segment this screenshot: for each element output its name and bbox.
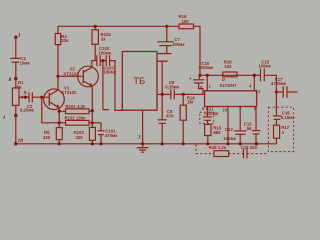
resistor R1 10к volume potentiometer [12, 79, 24, 144]
resistor R19 value 100 (in series with rail) [179, 14, 194, 29]
svg-text:1: 1 [18, 33, 21, 39]
node bus junction R15 [206, 142, 209, 145]
wire V1 emitter down [58, 108, 60, 128]
capacitor C102 100мк [97, 46, 112, 66]
svg-text:0,20мк: 0,20мк [20, 108, 35, 113]
node junction rail/R104 [94, 25, 97, 28]
wire C9 to amp input [174, 83, 203, 94]
capacitor C11 0,15мк [203, 107, 219, 121]
node 1 input terminal [14, 33, 21, 39]
capacitor C101 470мк [97, 123, 118, 144]
wire Zobel branch down [275, 92, 277, 116]
node bus junction ТБ pin3 [141, 142, 144, 145]
wire R1 wiper to node 9 [19, 96, 29, 98]
resistor R17 1 [274, 119, 290, 143]
wire C2 to V1 base [32, 96, 49, 98]
capacitor C2 0,33мк coupling [20, 92, 35, 112]
capacitor C10 1000мк [189, 61, 214, 83]
svg-text:470мк: 470мк [105, 133, 118, 138]
wire C17 to speaker terminal [287, 91, 298, 93]
wire ТБ output line [157, 93, 171, 95]
wire C1 to node 8 [15, 62, 17, 78]
svg-text:9: 9 [24, 91, 27, 97]
svg-text:3: 3 [137, 134, 141, 140]
transistor V1 КТ3102 [44, 86, 77, 110]
node bus junction C8 [161, 142, 164, 145]
ground symbol [137, 144, 149, 152]
wire IC pin 5 down [255, 107, 257, 131]
wire V1 collector riser [57, 45, 59, 90]
resistor R16 100 [223, 60, 237, 77]
resistor R101 4,3к feedback [59, 104, 92, 114]
svg-text:КТ3102: КТ3102 [62, 90, 78, 95]
capacitor C103 100мк [104, 55, 117, 74]
node junction emitter/R102 [91, 121, 94, 124]
node junction emitter/R101 [91, 109, 94, 112]
wire input down to C1 [15, 37, 17, 58]
svg-text:0,15мк: 0,15мк [204, 111, 219, 116]
wire between caps [100, 60, 106, 62]
wire C103 to corner down into ТБ [110, 61, 123, 111]
svg-text:R101 4,3к: R101 4,3к [66, 104, 86, 109]
svg-text:D: D [222, 77, 225, 82]
wire top supply rail [58, 25, 179, 27]
svg-text:680: 680 [213, 130, 221, 135]
svg-text:ТБ: ТБ [133, 76, 145, 87]
svg-text:К174УН7: К174УН7 [220, 83, 237, 88]
wire from caps junction down [103, 61, 109, 110]
connector bar upper [158, 53, 172, 55]
svg-text:1: 1 [209, 84, 211, 89]
svg-text:56: 56 [247, 126, 252, 131]
node junction pin4 riser [253, 74, 256, 77]
wire pin 4 riser [253, 75, 255, 91]
svg-text:420: 420 [76, 135, 84, 140]
node bus junction R14 [182, 142, 185, 145]
node bus junction C13 end [255, 142, 258, 145]
op-amp U1 К174УН7 IC box [205, 77, 257, 107]
node junction rail/C7 [165, 25, 168, 28]
capacitor C16 0,15мк [273, 110, 295, 120]
svg-text:C18 220: C18 220 [241, 145, 258, 150]
capacitor C18 220 [241, 145, 258, 158]
wire IC pin 6 down [207, 107, 209, 117]
node junction emitter/R101 left [58, 110, 61, 113]
svg-text:4700мк: 4700мк [271, 81, 287, 86]
resistor R103 420 emitter V2 [74, 127, 96, 143]
wire to V2 base [58, 75, 83, 77]
resistor R5 430 emitter V1 [43, 128, 62, 144]
svg-text:430: 430 [43, 135, 51, 140]
svg-text:1000мк: 1000мк [198, 65, 214, 70]
svg-text:100: 100 [224, 64, 232, 69]
svg-text:10к: 10к [15, 84, 23, 89]
svg-text:10мк: 10мк [20, 61, 31, 66]
wire dashed feedback branch from bus [195, 145, 197, 154]
capacitor C17 4700мк output [271, 77, 287, 98]
svg-text:10: 10 [18, 138, 24, 144]
resistor R18 1,2к [209, 145, 229, 157]
svg-text:100мк: 100мк [223, 136, 236, 141]
capacitor C7 100мк supply filter [157, 26, 185, 53]
capacitor C8 470 [158, 109, 174, 144]
node bus junction pin10 [226, 142, 229, 145]
node junction line/R19 drop [198, 74, 201, 77]
resistor R15 680 [205, 120, 222, 144]
svg-text:100мк: 100мк [258, 64, 271, 69]
capacitor C12 100мк [223, 127, 246, 144]
node junction shield/input line [161, 93, 164, 96]
wire ground bus [16, 143, 277, 145]
wire ТБ pin 3 to ground bus [142, 110, 144, 144]
resistor R4 33к collector load V1 [55, 26, 69, 44]
block ТБ tone unit [122, 52, 157, 111]
node junction emitter/R102 crossing [58, 121, 61, 124]
svg-text:8: 8 [9, 77, 12, 83]
svg-text:R18 1,2к: R18 1,2к [209, 145, 227, 150]
node 1 lower terminal [3, 114, 18, 121]
resistor R102 130к feedback [65, 116, 102, 126]
svg-text:100мк: 100мк [99, 50, 112, 55]
node 9 wiper junction [24, 91, 27, 99]
node junction R14 top [182, 93, 185, 96]
wire pin 1 riser [206, 75, 208, 91]
capacitor C15 100мк bootstrap [258, 59, 271, 81]
resistor R104 2к collector load V2 [92, 26, 111, 60]
svg-text:33к: 33к [61, 38, 69, 43]
node junction pin1 riser [206, 74, 209, 77]
node 8 [9, 77, 18, 83]
capacitor C1 10мк [10, 56, 30, 66]
node bus junction C12 [239, 142, 242, 145]
node junction collector/V2 base [56, 75, 59, 78]
resistor R14 1М [180, 94, 195, 143]
svg-text:КТ3102: КТ3102 [64, 71, 80, 76]
connector bar lower [157, 60, 168, 62]
wire dashed to R18 [196, 153, 214, 155]
svg-text:C12: C12 [225, 127, 233, 132]
dashed frame around C11 [200, 112, 214, 123]
node bus junction C101 [99, 142, 102, 145]
svg-text:0,33мк: 0,33мк [165, 85, 180, 90]
wire shield line down [161, 61, 163, 119]
wire rail right corner down to V+ line [194, 26, 201, 75]
dashed frame around C16 R17 [268, 107, 293, 151]
node junction base/R102 riser [40, 96, 43, 99]
svg-text:100мк: 100мк [172, 42, 185, 47]
svg-text:1: 1 [3, 115, 6, 121]
svg-text:470: 470 [166, 114, 174, 119]
wire V2 emitter down [91, 86, 93, 127]
wire V+ distribution line [200, 74, 260, 76]
node bus junction R103 [91, 142, 94, 145]
node junction between C102 and C103 [101, 59, 104, 62]
svg-text:1М: 1М [187, 100, 193, 105]
wire output to C17 [276, 91, 283, 93]
svg-text:R102 130к: R102 130к [65, 116, 87, 121]
node bus junction R1 [14, 142, 17, 145]
node bus junction R5 [58, 142, 61, 145]
wire dashed R18 to C18 [229, 153, 244, 155]
capacitor C9 0,33мк [165, 80, 180, 99]
node junction output [275, 90, 278, 93]
svg-text:100: 100 [182, 19, 190, 24]
transistor V2 КТ3102 [64, 66, 99, 87]
wire dashed C18 to Zobel frame [247, 153, 268, 155]
wire IC pin 7 down [239, 107, 241, 131]
wire C15 to output corner [264, 75, 276, 92]
capacitor C13 56 [244, 122, 261, 144]
wire V2 collector riser and caps line [92, 61, 97, 68]
wire riser base node down to R102 [42, 97, 66, 123]
wire IC pin 10 down [227, 107, 229, 144]
